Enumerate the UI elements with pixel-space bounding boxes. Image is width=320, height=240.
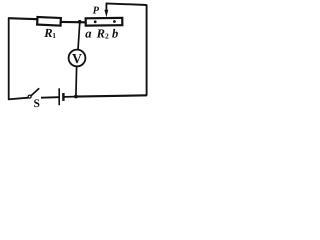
- svg-text:R: R: [96, 26, 105, 40]
- svg-text:P: P: [93, 5, 100, 16]
- wire top left horizontal: [8, 18, 38, 19]
- svg-text:b: b: [112, 26, 118, 40]
- switch pivot circle: [28, 95, 31, 98]
- svg-text:S: S: [34, 98, 40, 110]
- wire R1 to R2: [61, 21, 86, 23]
- slider P arrow: [105, 4, 107, 12]
- svg-text:V: V: [72, 51, 82, 66]
- battery negative plate (short): [62, 93, 64, 101]
- wire junction to voltmeter: [78, 22, 80, 50]
- terminal b dot: [113, 20, 116, 23]
- wire voltmeter to bottom junction: [75, 66, 78, 96]
- wire right vertical: [146, 5, 148, 96]
- wire left vertical: [8, 18, 10, 100]
- switch blade: [31, 88, 39, 95]
- node junction top (voltmeter tap): [78, 20, 82, 24]
- svg-text:R: R: [43, 26, 52, 40]
- wire bottom left to switch: [8, 98, 28, 100]
- terminal a dot: [94, 20, 97, 23]
- wire bottom junction to battery: [64, 96, 76, 98]
- resistor R1: [37, 17, 61, 26]
- battery positive plate (long): [58, 88, 60, 105]
- node junction bottom: [74, 95, 78, 99]
- wire battery to switch: [41, 96, 59, 99]
- svg-text:a: a: [85, 26, 91, 40]
- wire bottom right horizontal: [76, 95, 147, 96]
- wire slider top horizontal: [106, 3, 147, 5]
- rheostat R2: [86, 18, 123, 26]
- voltmeter V: [69, 50, 86, 67]
- svg-text:2: 2: [105, 31, 109, 40]
- svg-text:1: 1: [52, 31, 56, 40]
